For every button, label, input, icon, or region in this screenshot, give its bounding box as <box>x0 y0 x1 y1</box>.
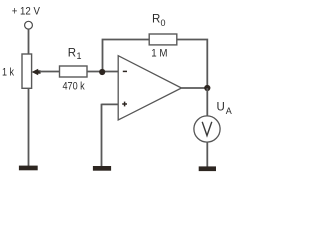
svg-text:+ 12 V: + 12 V <box>12 6 41 18</box>
svg-text:1 k: 1 k <box>2 66 14 78</box>
wire feedback: node up and across to R0 <box>103 40 150 72</box>
wire non-inverting input <box>102 103 119 105</box>
svg-text:470 k: 470 k <box>63 81 86 93</box>
svg-text:A: A <box>226 106 232 116</box>
svg-text:1 M: 1 M <box>151 48 167 60</box>
wire R0 to right, down to output node <box>177 40 208 89</box>
label R0 <box>152 14 166 28</box>
node A junction dot (inverting input) <box>99 69 105 75</box>
ground (potentiometer) <box>19 166 38 171</box>
svg-text:0: 0 <box>161 18 166 28</box>
voltmeter V letter <box>202 122 212 136</box>
ground (voltmeter) <box>199 166 216 171</box>
wiper arrow into potentiometer <box>32 69 41 75</box>
resistor R1 body <box>60 66 88 77</box>
wire op-amp output to node <box>182 87 208 89</box>
terminal +12V <box>25 21 33 29</box>
label R1 <box>68 48 82 62</box>
resistor R0 body <box>149 34 177 45</box>
wire potentiometer bottom to ground <box>28 88 30 166</box>
svg-text:1: 1 <box>77 51 82 61</box>
svg-text:R: R <box>68 48 76 60</box>
wire node to voltmeter <box>206 88 208 116</box>
minus input marker <box>123 70 127 72</box>
svg-text:U: U <box>217 102 225 114</box>
voltmeter V body <box>194 116 220 142</box>
plus input marker <box>122 102 127 107</box>
node B junction dot (output) <box>204 85 210 91</box>
svg-text:R: R <box>152 14 160 26</box>
wire voltmeter to ground <box>206 142 208 166</box>
wire non-inverting input down to ground <box>101 104 103 166</box>
wire terminal to potentiometer top <box>28 29 30 54</box>
op-amp U1 triangle <box>118 56 181 120</box>
wire R1 to op-amp inverting input <box>87 71 118 73</box>
label UA output voltage <box>217 102 232 117</box>
ground (non-inverting input) <box>93 166 111 171</box>
potentiometer P1 body <box>22 54 32 88</box>
wire wiper to R1 <box>40 71 60 73</box>
